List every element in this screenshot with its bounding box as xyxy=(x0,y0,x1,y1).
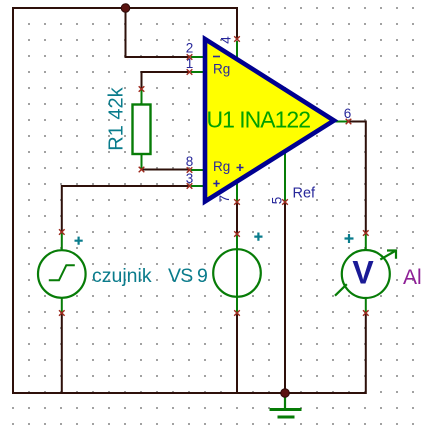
svg-text:VS 9: VS 9 xyxy=(168,265,207,287)
svg-text:2: 2 xyxy=(186,41,194,56)
svg-text:czujnik: czujnik xyxy=(92,265,152,287)
svg-text:U1 INA122: U1 INA122 xyxy=(207,107,311,133)
svg-text:Al: Al xyxy=(403,266,422,289)
svg-text:Rg: Rg xyxy=(213,159,230,174)
svg-text:Rg: Rg xyxy=(213,62,230,77)
svg-text:Ref: Ref xyxy=(293,186,317,202)
svg-text:4: 4 xyxy=(219,36,234,44)
svg-text:7: 7 xyxy=(217,195,232,203)
svg-text:V: V xyxy=(352,255,374,291)
svg-text:R1 42k: R1 42k xyxy=(106,86,128,150)
svg-text:5: 5 xyxy=(270,197,285,205)
svg-text:1: 1 xyxy=(186,56,194,71)
svg-text:8: 8 xyxy=(186,154,194,169)
svg-text:6: 6 xyxy=(344,106,352,121)
